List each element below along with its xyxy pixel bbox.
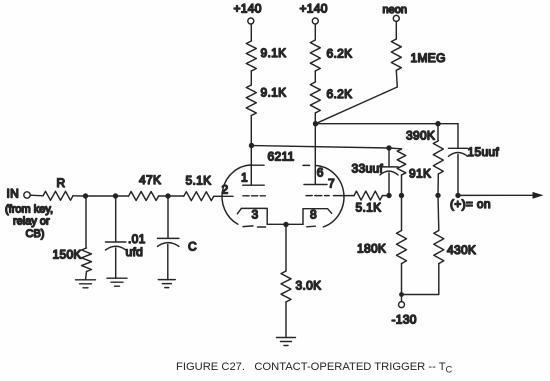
svg-text:.01: .01 <box>128 232 146 246</box>
wire +140 right to 6.2K <box>314 24 316 40</box>
node junction 150K <box>83 193 88 198</box>
ground 3.0K <box>277 338 296 346</box>
node 390K bottom <box>435 193 440 198</box>
svg-text:(+)= on: (+)= on <box>450 197 491 211</box>
svg-text:6.2K: 6.2K <box>327 47 353 61</box>
node output 15uuf bottom <box>455 193 460 198</box>
wire IN to R <box>30 194 43 197</box>
resistor 5.1K output <box>354 191 382 200</box>
svg-text:2: 2 <box>222 183 229 197</box>
ground C <box>158 280 175 288</box>
wire output with arrow <box>458 192 544 199</box>
wire 9.1K to plate pin 1 <box>250 116 252 186</box>
triode right cathode (pin 8) <box>303 209 332 225</box>
node -130 junction <box>399 292 404 297</box>
svg-text:7: 7 <box>328 177 335 191</box>
resistor 150K <box>85 196 87 248</box>
wire +140 left to 9.1K <box>250 24 252 41</box>
svg-text:15uuf: 15uuf <box>468 145 500 159</box>
resistor 1MEG <box>391 39 401 70</box>
ground .01 <box>107 278 127 286</box>
ground 150K <box>76 280 96 288</box>
resistor 430K <box>437 195 440 230</box>
wire 15uuf to output line <box>457 155 459 196</box>
terminal +140 right <box>300 2 328 25</box>
svg-text:9.1K: 9.1K <box>261 46 287 60</box>
resistor R 9.1K upper <box>246 41 256 71</box>
tube V1 6211 envelope <box>222 165 344 227</box>
svg-text:33uuf: 33uuf <box>352 162 384 176</box>
capacitor 33uuf <box>388 148 390 167</box>
wire rail corner down to 15uuf <box>457 124 459 149</box>
wire 1MEG to right plate node (diagonal) <box>316 70 398 123</box>
resistor 6.2K upper <box>310 40 320 71</box>
svg-text:6.2K: 6.2K <box>327 87 353 101</box>
node 390K top <box>435 121 440 126</box>
node left plate junction <box>249 143 254 148</box>
resistor 3.0K <box>285 225 287 272</box>
svg-text:IN: IN <box>7 187 20 201</box>
svg-text:-130: -130 <box>392 313 417 327</box>
node cathode junction <box>283 222 288 227</box>
svg-text:C: C <box>188 240 197 254</box>
resistor 91K <box>389 148 402 149</box>
svg-text:6211: 6211 <box>268 150 295 164</box>
svg-text:3: 3 <box>252 208 259 222</box>
triode left grid (dashed) <box>243 195 265 197</box>
wire R to 47K <box>73 195 129 197</box>
resistor 180K <box>401 196 403 231</box>
capacitor C 15uuf <box>449 148 468 156</box>
node 33uuf top <box>386 145 391 150</box>
svg-text:5.1K: 5.1K <box>356 201 382 215</box>
capacitor .01 ufd <box>115 196 117 242</box>
svg-text:9.1K: 9.1K <box>261 86 287 100</box>
svg-text:8: 8 <box>310 208 317 222</box>
svg-text:180K: 180K <box>357 242 386 256</box>
resistor 390K <box>437 124 439 141</box>
wire cathode bus <box>267 223 303 225</box>
svg-text:neon: neon <box>383 4 407 16</box>
terminal +140 left <box>234 2 262 25</box>
terminal neon <box>383 4 407 21</box>
triode left cathode (pin 3) <box>237 208 267 224</box>
label (from key, relay or CB) <box>5 204 53 241</box>
svg-text:CB): CB) <box>26 228 45 240</box>
terminal -130 <box>392 295 417 327</box>
wire grid pin 7 to 5.1K <box>334 195 355 197</box>
svg-text:(from key,: (from key, <box>5 204 53 216</box>
svg-text:6: 6 <box>317 166 324 180</box>
node 33uuf bottom <box>386 193 391 198</box>
svg-text:relay or: relay or <box>13 216 50 228</box>
svg-text:+140: +140 <box>300 2 328 16</box>
svg-text:91K: 91K <box>409 167 431 181</box>
wire left plate node to 33uuf top <box>252 146 390 149</box>
triode left plate (pin 1) <box>243 184 264 186</box>
node 91K bottom <box>399 193 404 198</box>
wire 47K to 5.1K <box>159 195 184 197</box>
resistor 9.1K lower <box>246 85 256 116</box>
resistor 5.1K input <box>184 192 214 201</box>
wire neon to 1MEG <box>395 22 397 40</box>
wire right plate node to 390K and 15uuf <box>316 123 459 125</box>
svg-text:47K: 47K <box>139 173 161 187</box>
svg-text:+140: +140 <box>234 2 262 16</box>
node junction C <box>165 193 170 198</box>
resistor R <box>43 191 73 200</box>
svg-text:1MEG: 1MEG <box>411 51 446 65</box>
wire between 9.1K resistors <box>250 71 252 85</box>
resistor 6.2K lower <box>310 82 320 113</box>
svg-text:3.0K: 3.0K <box>296 279 322 293</box>
svg-text:150K: 150K <box>53 248 82 262</box>
resistor 47K <box>129 192 159 201</box>
triode right grid (dashed) <box>306 195 329 197</box>
svg-text:430K: 430K <box>447 243 476 257</box>
node right plate junction <box>313 121 318 126</box>
svg-text:R: R <box>57 176 66 190</box>
wire 5.1K to grid pin 2 <box>214 195 233 197</box>
svg-text:5.1K: 5.1K <box>186 174 212 188</box>
capacitor C <box>167 196 169 238</box>
svg-text:390K: 390K <box>406 129 435 143</box>
svg-text:ufd: ufd <box>126 245 144 259</box>
wire between 6.2K resistors <box>314 71 316 82</box>
svg-text:1: 1 <box>241 171 248 185</box>
triode right plate (pin 6) <box>304 184 327 186</box>
wire 6.2K to pin 6 <box>314 113 316 185</box>
label .01 ufd <box>126 232 146 259</box>
svg-text:FIGURE C27. CONTACT-OPERATED: FIGURE C27. CONTACT-OPERATED TRIGGER -- … <box>176 361 453 375</box>
input terminal IN <box>7 187 31 201</box>
node junction .01 <box>113 193 118 198</box>
